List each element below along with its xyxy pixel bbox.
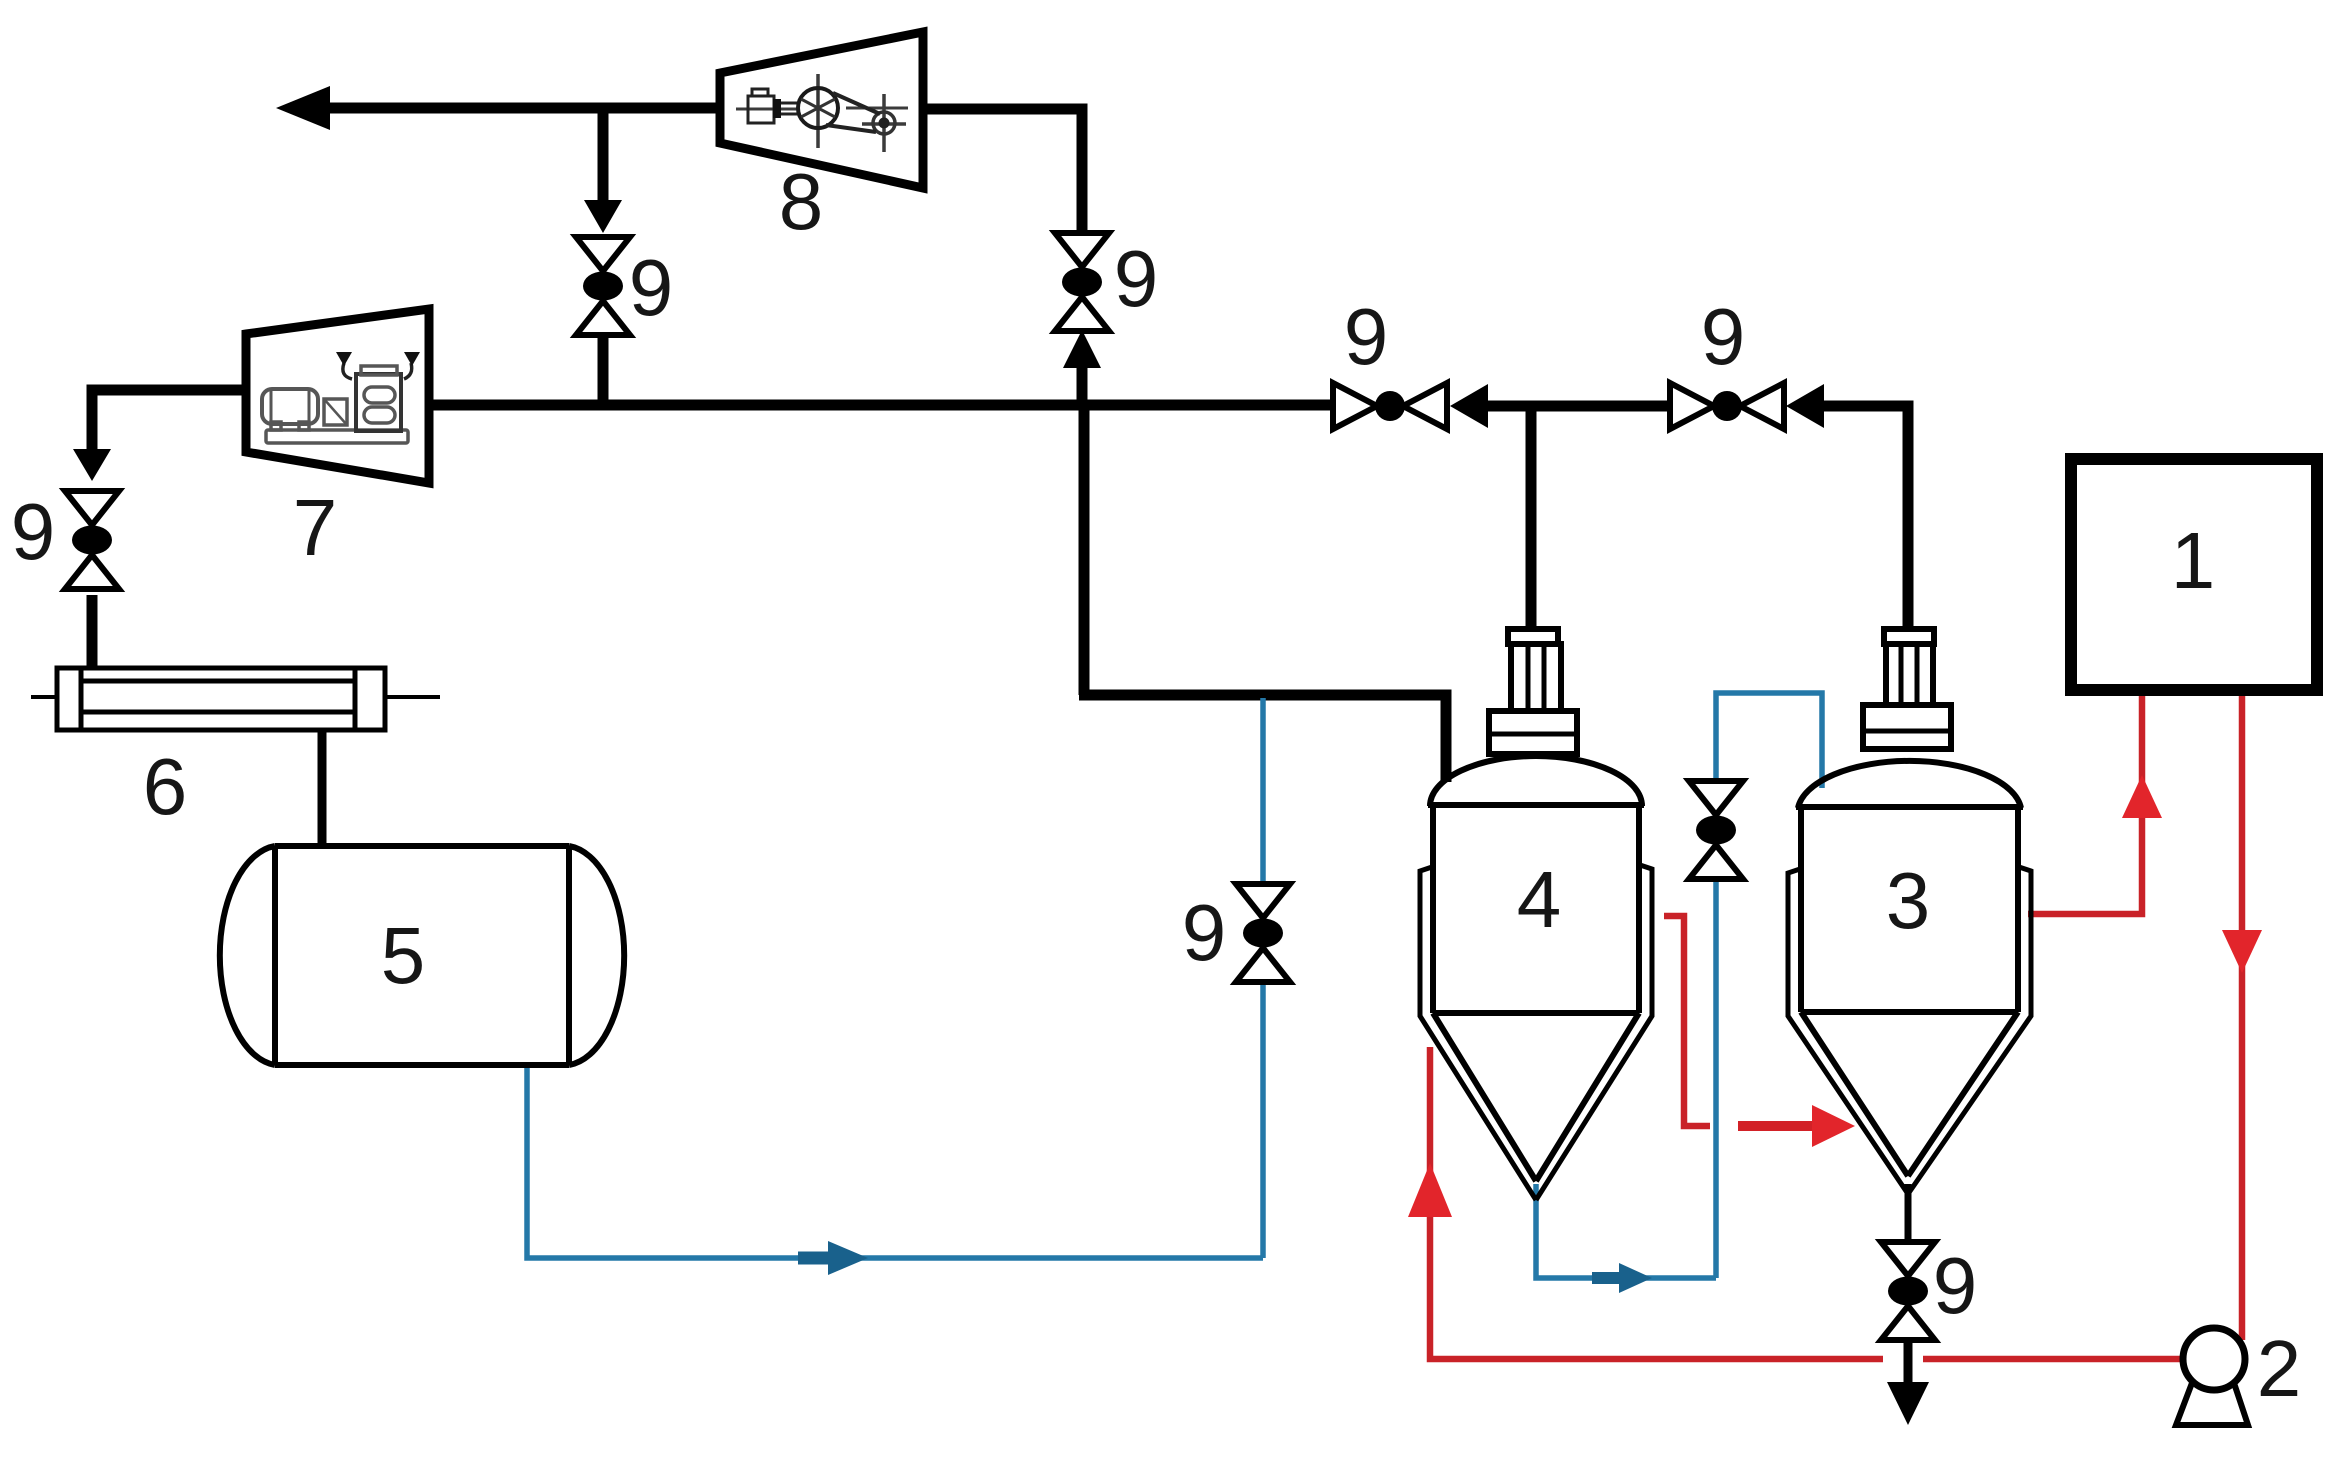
svg-text:6: 6: [143, 742, 188, 831]
svg-text:9: 9: [1701, 292, 1746, 381]
svg-text:9: 9: [629, 243, 674, 332]
svg-text:9: 9: [1182, 888, 1227, 977]
svg-text:9: 9: [1344, 292, 1389, 381]
svg-text:9: 9: [1114, 234, 1159, 323]
svg-text:2: 2: [2257, 1324, 2302, 1413]
svg-text:1: 1: [2171, 516, 2216, 605]
svg-text:7: 7: [293, 483, 338, 572]
svg-text:8: 8: [779, 157, 824, 246]
svg-text:9: 9: [11, 487, 56, 576]
svg-text:9: 9: [1933, 1241, 1978, 1330]
svg-text:3: 3: [1886, 856, 1931, 945]
svg-text:5: 5: [381, 911, 426, 1000]
svg-text:4: 4: [1517, 855, 1562, 944]
